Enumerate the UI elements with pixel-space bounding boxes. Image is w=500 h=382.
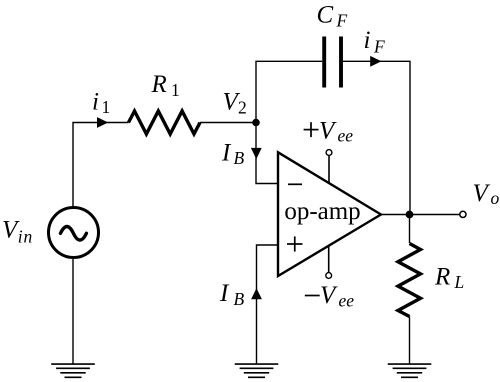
label IB top [221,139,245,168]
wire R1 to node V2 [200,122,256,124]
label V2 [223,88,247,117]
wire from Vin top up and right to R1 [73,123,129,207]
feedback wire up from V2 to capacitor [256,61,322,122]
current arrow IB (down, into inverting input) [251,148,262,159]
wire RL to ground [409,317,411,365]
-Vee terminal circle [326,273,332,279]
source Vin circle [49,208,99,258]
svg-text:B: B [234,289,245,309]
svg-text:C: C [317,2,334,29]
ground under RL [388,364,432,377]
label CF [317,2,348,31]
label IB bottom [219,280,245,309]
-Vee supply stub [328,246,330,273]
svg-text:R: R [151,71,167,98]
svg-text:L: L [454,272,465,292]
resistor RL [398,244,421,317]
output wire to Vo terminal [381,214,460,216]
op-amp U1 triangle [278,152,381,276]
current arrow i1 [97,117,108,128]
svg-text:B: B [234,148,245,168]
svg-text:F: F [336,11,348,31]
op-amp minus input sign [288,183,302,185]
label iF [364,27,386,56]
node V2 junction dot [252,119,260,127]
svg-text:op-amp: op-amp [284,198,360,225]
svg-text:R: R [434,263,450,290]
output node junction dot [406,211,414,219]
label R1 [151,71,180,100]
label RL [434,263,464,292]
op-amp plus input sign [287,236,303,251]
ground under Vin [51,364,95,377]
wire Vin bottom to ground [72,259,74,365]
label Vin [2,217,33,247]
current arrow iF [370,56,381,67]
source Vin sine wave [61,227,87,241]
svg-text:F: F [373,36,385,56]
+Vee terminal circle [326,150,332,156]
svg-text:ee: ee [338,126,354,146]
wire ground up to non-inverting input [257,245,278,364]
svg-text:o: o [491,188,500,208]
ground under non-inverting input branch [235,364,279,377]
label Vo [473,180,500,208]
svg-text:i: i [364,27,371,54]
label -Vee [305,282,354,311]
svg-text:1: 1 [171,80,180,100]
wire output node down to RL [409,215,411,244]
label i1 [92,88,110,117]
svg-text:i: i [92,88,99,115]
wire V2 down to inverting input [256,123,277,184]
resistor R1 [129,111,201,134]
+Vee supply stub [328,155,330,183]
svg-text:2: 2 [238,97,247,117]
svg-text:ee: ee [339,291,355,311]
capacitor CF [324,37,341,88]
feedback wire from capacitor right to corner and down to output node [343,61,410,214]
Vo open terminal [460,211,466,217]
current arrow IB (up, into non-inverting input) [251,288,262,299]
svg-text:in: in [18,226,33,246]
svg-text:1: 1 [102,97,111,117]
label +Vee [304,118,354,146]
